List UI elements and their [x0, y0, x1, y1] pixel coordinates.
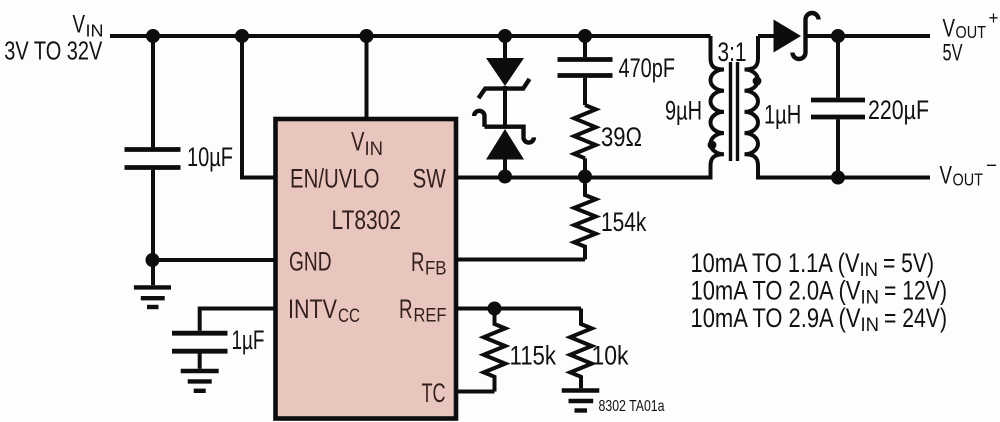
wire top VIN rail — [110, 34, 711, 38]
svg-text:220µF: 220µF — [868, 95, 929, 125]
svg-text:9µH: 9µH — [665, 96, 702, 126]
resistor 154k — [574, 178, 596, 260]
svg-text:8302 TA01a: 8302 TA01a — [599, 398, 665, 415]
node dot top rail 2 — [235, 29, 249, 43]
wire 10uF to GND row — [151, 170, 155, 260]
node dot VOUT- — [831, 171, 845, 185]
svg-text:39Ω: 39Ω — [601, 122, 642, 152]
svg-text:154k: 154k — [601, 207, 647, 237]
IC U1 LT8302 box — [276, 119, 457, 419]
node dot SW RC — [578, 170, 592, 184]
capacitor C 1uF — [172, 333, 228, 351]
node dot GND junction — [146, 253, 160, 267]
svg-text:10k: 10k — [592, 341, 629, 371]
svg-text:V: V — [73, 11, 86, 39]
svg-text:FB: FB — [425, 259, 447, 280]
svg-text:OUT: OUT — [953, 170, 984, 190]
wire VIN pin — [365, 34, 369, 118]
diode D2 zener top triangle — [486, 58, 524, 86]
svg-text:−: − — [986, 155, 997, 177]
node dot zener top — [498, 29, 512, 43]
svg-text:GND: GND — [289, 247, 332, 277]
wire diode to VOUT+ — [806, 34, 931, 38]
wire 39ohm bottom — [583, 158, 587, 179]
wire output cap bottom — [836, 119, 840, 177]
svg-text:10mA TO 2.0A (V: 10mA TO 2.0A (V — [691, 275, 861, 305]
svg-text:LT8302: LT8302 — [332, 205, 402, 235]
svg-text:3V TO 32V: 3V TO 32V — [4, 36, 102, 66]
svg-text:10µF: 10µF — [187, 142, 233, 172]
wire secondary top to diode — [758, 34, 774, 38]
svg-text:TC: TC — [422, 378, 446, 408]
resistor 10k — [570, 309, 592, 389]
svg-text:R: R — [411, 247, 425, 277]
svg-text:REF: REF — [414, 306, 447, 327]
capacitor C 10uF — [125, 150, 181, 168]
svg-text:V: V — [943, 15, 956, 43]
wire EN/UVLO branch — [242, 34, 274, 178]
transformer primary winding — [711, 36, 725, 180]
svg-text:1µF: 1µF — [232, 325, 265, 355]
node dot RREF junction — [488, 302, 502, 316]
resistor 115k — [484, 309, 506, 392]
phase dot secondary — [753, 77, 762, 86]
wire GND pin — [153, 258, 274, 262]
node dot VOUT+ — [831, 29, 845, 43]
svg-text:1µH: 1µH — [764, 100, 801, 130]
svg-text:3:1: 3:1 — [718, 37, 747, 67]
diode D1 output triangle — [774, 20, 802, 53]
svg-text:115k: 115k — [510, 341, 557, 371]
svg-text:CC: CC — [338, 306, 360, 327]
svg-text:470pF: 470pF — [619, 53, 676, 83]
transformer secondary winding — [745, 36, 759, 180]
ground G2 — [562, 391, 600, 411]
svg-text:= 12V): = 12V) — [884, 275, 947, 305]
svg-text:V: V — [940, 162, 953, 190]
svg-text:= 24V): = 24V) — [884, 303, 947, 333]
wire RC snubber top — [583, 34, 587, 57]
svg-text:IN: IN — [861, 288, 880, 309]
svg-text:IN: IN — [861, 315, 880, 336]
phase dot primary — [708, 141, 717, 150]
wire RFB pin — [458, 258, 585, 262]
svg-text:V: V — [351, 127, 365, 157]
svg-text:= 5V): = 5V) — [883, 248, 934, 278]
wire TC pin — [458, 390, 495, 394]
wire zener branch top — [503, 34, 507, 59]
svg-text:R: R — [399, 294, 413, 324]
diode D3 bottom triangle — [486, 129, 524, 160]
wire below bottom diode — [503, 159, 507, 179]
node dot top rail 1 — [146, 29, 160, 43]
zener bar — [479, 79, 530, 98]
svg-text:5V: 5V — [943, 40, 963, 67]
node dot RC top — [578, 29, 592, 43]
node dot top rail 3 — [360, 29, 374, 43]
transformer core — [731, 62, 738, 161]
wire RREF rail — [458, 307, 581, 311]
svg-text:IN: IN — [365, 139, 384, 160]
wire 10uF branch top — [151, 36, 155, 147]
wire output cap top — [836, 36, 840, 98]
svg-text:10mA TO 2.9A (V: 10mA TO 2.9A (V — [691, 303, 861, 333]
svg-text:10mA TO 1.1A (V: 10mA TO 1.1A (V — [691, 248, 860, 278]
svg-text:IN: IN — [860, 260, 879, 281]
diode D1 schottky curl — [793, 13, 819, 59]
svg-text:+: + — [989, 8, 999, 28]
ground G1 — [134, 287, 171, 307]
resistor 39ohm — [574, 105, 596, 158]
wire INTVCC pin — [200, 309, 274, 331]
wire between diodes — [503, 86, 507, 127]
capacitor C 470pF — [558, 60, 613, 76]
ground G3 — [181, 371, 219, 391]
wire to ground — [151, 260, 155, 285]
svg-text:INTV: INTV — [288, 294, 337, 324]
capacitor C 220uF — [811, 100, 865, 117]
wire 1uF to ground — [198, 354, 202, 369]
schottky bar horizontal — [474, 111, 534, 143]
wire SW rail — [458, 176, 711, 180]
wire cap to resistor — [583, 78, 587, 105]
node dot SW zener — [498, 170, 512, 184]
wire VOUT- rail — [758, 176, 930, 180]
svg-text:SW: SW — [413, 164, 447, 194]
svg-text:EN/UVLO: EN/UVLO — [290, 164, 380, 194]
